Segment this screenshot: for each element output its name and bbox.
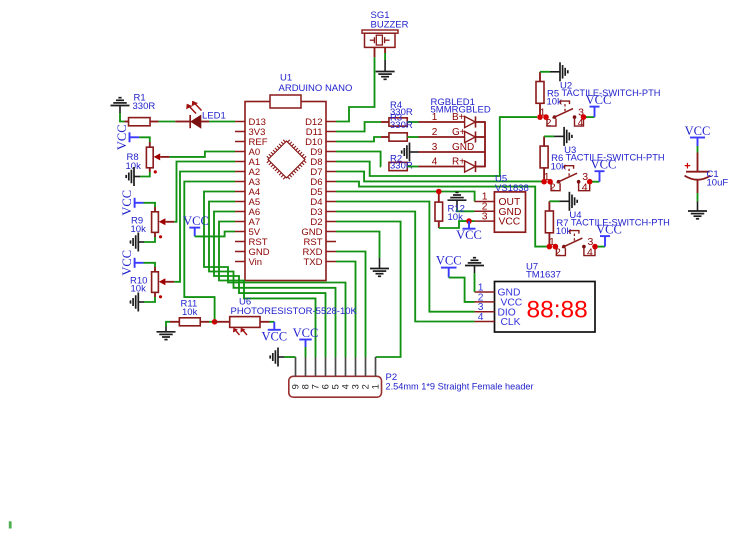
wire U4 pin3 to VCC: [595, 246, 605, 248]
U1 pin D12 (right): [326, 121, 336, 123]
VCC flag for U4: [600, 235, 610, 237]
U1 pin D11 (right): [326, 131, 336, 133]
P2 pin 2: [365, 357, 367, 376]
ground for C1: [697, 202, 699, 212]
wire D3 to U7 CLK: [336, 212, 475, 322]
U1 pin A0 (left): [235, 151, 245, 153]
svg-text:ARDUINO NANO: ARDUINO NANO: [279, 83, 353, 94]
svg-text:8: 8: [301, 384, 311, 389]
wire R10 wiper to A2: [174, 172, 235, 282]
svg-text:LED1: LED1: [202, 111, 226, 122]
ic U5 VS1838 body: [494, 192, 525, 232]
resistor R6 10k: [543, 136, 545, 146]
wire D6 to U4 switch node: [336, 182, 548, 247]
ground for R1: [111, 105, 130, 107]
wire A7 to P2 pin7: [219, 222, 316, 358]
U5 pin 3 VCC: [475, 220, 495, 222]
U5 pin 1 OUT: [475, 201, 495, 203]
wire TXD to P2 pin3: [336, 262, 356, 358]
svg-text:10k: 10k: [547, 97, 563, 108]
wire A5 to P2 pin5: [209, 202, 336, 358]
ground for RGBLED1 GND pin: [410, 151, 419, 153]
wire R8 wiper to A0: [170, 152, 235, 157]
svg-text:VCC: VCC: [115, 124, 129, 150]
wire VCC to U7 pin2: [449, 278, 475, 302]
wire U6 to VCC: [260, 321, 270, 323]
wire ground to R1: [120, 113, 125, 122]
wire ground to U7 pin1: [474, 273, 476, 292]
node U4 pin1 junctions: [547, 244, 553, 250]
svg-text:CLK: CLK: [501, 317, 521, 328]
wire VCC to R10 top: [144, 263, 156, 267]
U1 pin A4 (left): [235, 191, 245, 193]
VCC flag for U6: [273, 322, 275, 330]
wire R8 bottom to ground: [149, 168, 151, 172]
U1 pin A1 (left): [235, 161, 245, 163]
VCC flag for U3: [595, 170, 605, 172]
ic U7 TM1637 body: [495, 282, 596, 333]
P2 pin 8: [305, 357, 307, 376]
U7 pin 4 CLK: [475, 321, 495, 323]
wire D2 to P2 pin1: [336, 222, 401, 358]
P2 pin 6: [325, 357, 327, 376]
U1 pin GND (right): [326, 231, 336, 233]
P2 pin 5: [335, 357, 337, 376]
wire R12 bottom to U5 pin3: [439, 221, 475, 228]
U1 pin D10 (right): [326, 141, 336, 143]
green tick mark: [9, 521, 12, 528]
svg-text:+: +: [684, 160, 690, 172]
wire R7 top to ground: [549, 200, 559, 202]
U1 pin A5 (left): [235, 201, 245, 203]
U1 pin D7 (right): [326, 171, 336, 173]
wire R5 top to ground: [540, 71, 550, 73]
wire U3 pin3 to VCC: [590, 181, 600, 183]
svg-text:VCC: VCC: [120, 190, 134, 216]
wire ground to U5 pin2: [457, 208, 475, 211]
VCC flag for C1: [690, 137, 705, 139]
wire R6 top to ground: [544, 135, 554, 137]
wire VCC to 5V: [195, 232, 235, 237]
ground for R6: [554, 135, 564, 137]
svg-text:4: 4: [587, 246, 593, 258]
wire R9 wiper to A1: [174, 162, 235, 222]
svg-text:10k: 10k: [182, 307, 198, 318]
U1 pin A3 (left): [235, 181, 245, 183]
U1 pin A6 (left): [235, 211, 245, 213]
resistor R10 10k potentiometer: [154, 267, 156, 272]
svg-text:10k: 10k: [551, 161, 567, 172]
U1 pin 5V (left): [235, 231, 245, 233]
P2 pin 9: [295, 357, 297, 376]
U1 usb connector rect: [270, 95, 301, 108]
VCC flag for R8: [129, 132, 131, 142]
resistor R7 10k: [548, 201, 550, 211]
wire C1 to ground: [697, 180, 699, 193]
buzzer SG1 left pin lead: [374, 47, 376, 57]
resistor R9 10k potentiometer: [154, 207, 156, 212]
U1 pin D3 (right): [326, 211, 336, 213]
ic U1 ARDUINO NANO body: [245, 102, 326, 281]
U1 pin D5 (right): [326, 191, 336, 193]
ground for U1 GND (right): [379, 258, 381, 269]
resistor R8 10k potentiometer: [149, 142, 151, 147]
wire A3 to R11/U6 junction: [184, 182, 235, 322]
wire D11 to R4: [336, 122, 381, 132]
ground for R10: [138, 301, 144, 303]
svg-text:TM1637: TM1637: [526, 269, 561, 280]
wire R11 to junction: [209, 321, 215, 323]
svg-text:10k: 10k: [556, 226, 572, 237]
ground for U5 GND pin: [448, 199, 467, 201]
node R12 top junction: [436, 189, 442, 195]
ground for P2 pin9: [277, 348, 279, 367]
P2 pin 1: [375, 357, 377, 376]
P2 pin 7: [315, 357, 317, 376]
U1 pin D13 (left): [235, 121, 245, 123]
ground for R5: [550, 71, 560, 73]
ground for U7 GND pin: [465, 265, 484, 267]
svg-text:VCC: VCC: [499, 217, 521, 228]
U1 pin D2 (right): [326, 221, 336, 223]
LED LED1: [175, 121, 190, 123]
VCC flag for U2: [590, 106, 600, 108]
wire VCC to R8 top: [139, 137, 150, 142]
U5 pin 2 GND: [475, 210, 495, 212]
ground for R11: [157, 331, 176, 333]
svg-text:4: 4: [341, 384, 351, 389]
svg-text:9: 9: [291, 384, 301, 389]
wire R10 bottom to ground: [154, 292, 156, 297]
wire D7 to U3 switch node: [336, 172, 543, 182]
resistor R2 330R: [389, 162, 407, 170]
U1 pin GND (left): [235, 251, 245, 253]
U7 pin 2 VCC: [475, 301, 495, 303]
svg-text:VCC: VCC: [436, 254, 462, 268]
U1 pin 3V3 (left): [235, 131, 245, 133]
svg-text:VCC: VCC: [591, 158, 617, 172]
capacitor C1 10uF: [697, 153, 699, 172]
svg-text:330R: 330R: [390, 120, 413, 131]
svg-text:VCC: VCC: [183, 214, 209, 228]
svg-text:10uF: 10uF: [707, 178, 729, 189]
svg-text:5: 5: [331, 384, 341, 389]
U1 pin REF (left): [235, 141, 245, 143]
svg-text:U1: U1: [280, 73, 292, 84]
svg-text:2: 2: [361, 384, 371, 389]
svg-text:3: 3: [482, 211, 488, 222]
resistor R1 330R: [125, 121, 129, 123]
svg-text:VCC: VCC: [456, 228, 482, 242]
resistor R12 10k: [438, 192, 440, 203]
svg-text:BUZZER: BUZZER: [371, 20, 409, 31]
wire GND pin to ground: [336, 232, 380, 259]
VCC flag for U5: [468, 221, 470, 229]
wire R11 left to ground: [166, 322, 170, 327]
svg-text:VCC: VCC: [293, 326, 319, 340]
U1 pin D8 (right): [326, 161, 336, 163]
wire R1 to LED1: [150, 121, 159, 123]
svg-text:7: 7: [311, 384, 321, 389]
svg-text:VCC: VCC: [586, 93, 612, 107]
svg-text:6: 6: [321, 384, 331, 389]
svg-text:VCC: VCC: [596, 223, 622, 237]
U7 pin 1 GND: [475, 291, 495, 293]
wire D8 to U2 switch node: [336, 117, 537, 176]
buzzer SG1 right pin lead: [384, 47, 386, 53]
wire LED1 to D13: [201, 121, 209, 123]
svg-text:VCC: VCC: [261, 329, 287, 343]
connector P2 body: [289, 376, 382, 397]
svg-text:88:88: 88:88: [527, 297, 588, 324]
U1 pin TXD (right): [326, 261, 336, 263]
U1 pin D9 (right): [326, 151, 336, 153]
svg-text:4: 4: [478, 312, 484, 323]
ground for R8: [134, 176, 140, 178]
wire VCC to C1: [697, 146, 699, 153]
RGBLED1 common rail: [484, 121, 486, 167]
VCC flag for R9: [134, 198, 136, 208]
node R11/U6 junction: [212, 319, 218, 325]
svg-text:3: 3: [351, 384, 361, 389]
svg-text:TXD: TXD: [304, 257, 323, 268]
wire ground to P2 pin9: [284, 356, 296, 358]
U1 pin RST (right): [326, 241, 336, 243]
VCC flag for P2 pin8: [299, 339, 312, 341]
ground for R9: [138, 241, 144, 243]
wire VCC to P2 pin8: [305, 347, 307, 357]
U1 pin D6 (right): [326, 181, 336, 183]
svg-text:330R: 330R: [133, 101, 156, 112]
U1 pin A7 (left): [235, 221, 245, 223]
wire A6 to P2 pin6: [214, 212, 326, 358]
svg-text:1: 1: [371, 384, 381, 389]
node U2 pin1 junctions: [537, 114, 543, 120]
wire D10 to R3: [336, 137, 381, 142]
wire R9 bottom to ground: [154, 232, 156, 237]
node U3 pin1 junctions: [541, 179, 547, 185]
wire VCC to R9 top: [144, 203, 156, 207]
U1 pin RST (left): [235, 241, 245, 243]
U1 pin D4 (right): [326, 201, 336, 203]
wire D5 to U5 pin1 / R12: [336, 192, 475, 202]
P2 pin 3: [355, 357, 357, 376]
svg-text:VCC: VCC: [120, 250, 134, 276]
svg-text:Vin: Vin: [249, 257, 263, 268]
VCC flag for R10: [134, 258, 136, 268]
wire D4 to U7 DIO: [336, 202, 475, 312]
wire D9 to R2: [336, 152, 381, 167]
U1 chip diamond icon: [268, 141, 305, 178]
svg-text:2.54mm 1*9 Straight Female hea: 2.54mm 1*9 Straight Female header: [386, 381, 534, 391]
U1 pin A2 (left): [235, 171, 245, 173]
buzzer SG1 body: [362, 30, 398, 33]
svg-text:PHOTORESISTOR-5528-10K: PHOTORESISTOR-5528-10K: [231, 306, 358, 317]
wire RXD to P2 pin2: [336, 252, 366, 358]
svg-text:4: 4: [582, 182, 588, 194]
U1 pin Vin (left): [235, 261, 245, 263]
P2 pin 4: [345, 357, 347, 376]
resistor R5 10k: [539, 72, 541, 82]
U1 pin RXD (right): [326, 251, 336, 253]
wire A4 to P2 pin4: [204, 192, 346, 358]
wire U2 pin3 to VCC: [584, 116, 595, 118]
ground for R7: [559, 200, 569, 202]
U7 pin 3 DIO: [475, 311, 495, 313]
svg-text:VCC: VCC: [685, 124, 711, 138]
wire D12 to SG1 buzzer: [336, 57, 375, 121]
node U5 pin3 junction: [466, 218, 472, 224]
ground for SG1: [384, 60, 386, 72]
